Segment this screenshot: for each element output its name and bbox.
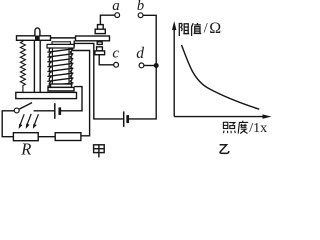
terminal d	[139, 63, 144, 68]
armature tap stub	[73, 41, 75, 47]
relay base bar	[16, 92, 77, 98]
upper fixed contact block	[98, 25, 104, 30]
terminal a	[115, 13, 120, 18]
switch	[14, 108, 19, 113]
svg-text:Ω: Ω	[209, 20, 221, 37]
battery B2 short plate	[126, 115, 129, 123]
wire battery2 to b/d vertical	[129, 15, 157, 119]
terminal b	[138, 13, 143, 18]
battery B1 short plate	[58, 107, 61, 115]
coil bottom flange	[48, 87, 74, 91]
lower fixed contact block	[97, 47, 103, 51]
graph y-axis	[173, 25, 175, 117]
label 阻值/Omega : 阻	[179, 24, 189, 37]
coil lead upper wire	[73, 51, 90, 136]
coil winding turns	[47, 47, 73, 86]
coil bottom neck	[51, 84, 72, 87]
spring	[20, 40, 25, 92]
wire R to resistor	[38, 136, 55, 138]
label 甲	[94, 145, 105, 158]
svg-text:/1x: /1x	[249, 121, 267, 136]
pivot arch	[35, 28, 40, 36]
light arrow 3	[34, 114, 38, 125]
svg-text:b: b	[137, 0, 144, 14]
graph x-axis	[174, 116, 266, 118]
svg-text:R: R	[20, 139, 31, 158]
svg-text:d: d	[136, 45, 144, 62]
armature bar right section	[76, 36, 110, 41]
wire switch left, down to photoresistor	[2, 111, 14, 137]
battery B2 long plate	[123, 111, 125, 127]
coil top neck	[52, 42, 71, 45]
svg-text:c: c	[112, 46, 119, 62]
support column	[33, 40, 35, 92]
junction node	[154, 63, 159, 68]
svg-text:a: a	[112, 0, 120, 14]
moving contact under armature	[97, 42, 102, 45]
coil top flange	[47, 44, 74, 48]
svg-text:/: /	[204, 21, 209, 37]
battery B1 long plate	[54, 103, 56, 119]
wire from lower contact to c terminal	[99, 55, 114, 65]
pivot block (filled)	[35, 36, 40, 41]
resistor body	[55, 133, 81, 141]
terminal c	[114, 62, 119, 67]
wire from a terminal to upper fixed contact	[100, 15, 114, 25]
wire d terminal to junction	[144, 65, 156, 67]
coil bobbin sides	[51, 47, 53, 84]
值	[192, 23, 202, 36]
light arrow 2	[27, 114, 31, 125]
label 乙	[220, 145, 229, 154]
armature link (thin middle)	[51, 37, 77, 39]
度	[238, 121, 248, 134]
armature bar left section	[17, 36, 51, 41]
coil lead lower wire to battery1	[61, 87, 82, 111]
light arrow 1	[19, 114, 39, 129]
R vs illuminance curve	[182, 45, 260, 109]
wire armature to working-circuit battery (via right side)	[74, 43, 123, 119]
wire switch to battery1	[34, 110, 55, 112]
label 照度/1x : 照	[223, 122, 235, 133]
photoresistor R body	[13, 133, 38, 141]
